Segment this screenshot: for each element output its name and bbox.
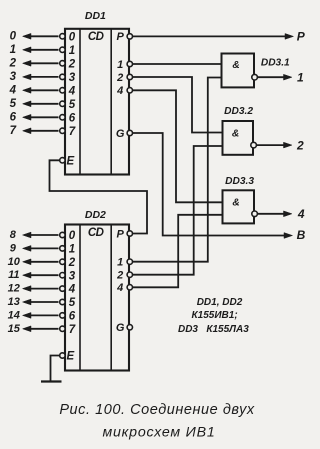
node B (external output label) (297, 228, 306, 242)
svg-text:2: 2 (9, 57, 17, 69)
DD1 input pin 2 (external line 2) (9, 57, 76, 70)
wire DD2.P to DD1.E (cascade enable) (50, 160, 148, 233)
DD2 output pin 4 (116, 282, 132, 294)
svg-text:&: & (232, 60, 239, 71)
DD1 input pin 4 (external line 4) (9, 84, 76, 97)
svg-text:0: 0 (69, 230, 76, 242)
caption line 2 (102, 425, 215, 441)
wire DD1.G to external output B (132, 133, 292, 238)
node 1 (external output label) (297, 70, 304, 84)
svg-text:P: P (117, 228, 125, 240)
svg-text:2: 2 (116, 72, 123, 84)
svg-text:E: E (66, 351, 74, 363)
DD2 input pin 0 (external line 8) (10, 229, 76, 242)
svg-text:5: 5 (10, 98, 17, 110)
wire DD3.3 output to external 4 (257, 211, 292, 217)
svg-text:7: 7 (69, 324, 76, 336)
label DD2 (85, 209, 106, 221)
svg-text:1: 1 (297, 70, 304, 84)
DD2 input pin 1 (external line 9) (10, 242, 75, 255)
DD2 input pin 2 (external line 10) (8, 256, 76, 269)
wire DD3.2 output to external 2 (256, 142, 292, 148)
label CD (DD2 function) (88, 227, 104, 239)
wire DD1.P to external output P (132, 34, 293, 40)
node 4 (external output label) (297, 207, 305, 221)
wire DD1 output 1 to DD3.1 input 1 (132, 63, 221, 65)
svg-text:6: 6 (10, 111, 17, 123)
svg-text:К155ИВ1;: К155ИВ1; (192, 310, 238, 321)
caption line 1 (59, 402, 255, 418)
DD1 input pin 3 (external line 3) (10, 71, 76, 84)
svg-text:4: 4 (297, 207, 305, 221)
svg-text:P: P (297, 29, 306, 43)
svg-text:10: 10 (8, 256, 21, 268)
wire DD2 output 2 to DD3.2 input 2 (132, 146, 222, 275)
label DD3.1 (261, 58, 290, 69)
DD1 enable input pin E (60, 155, 75, 167)
IC DD2 body (65, 225, 129, 371)
NAND gate DD3.3 (223, 190, 258, 223)
node 2 (external output label) (296, 138, 304, 152)
svg-text:5: 5 (69, 297, 76, 309)
svg-text:5: 5 (69, 99, 76, 111)
svg-text:2: 2 (68, 58, 76, 70)
svg-text:DD2: DD2 (85, 209, 106, 221)
svg-text:DD3.2: DD3.2 (224, 106, 253, 117)
svg-text:DD3.3: DD3.3 (225, 176, 254, 187)
svg-text:7: 7 (10, 125, 17, 137)
label CD (DD1 function) (88, 31, 104, 43)
label DD3.2 (224, 106, 253, 117)
DD1 input pin 7 (external line 7) (10, 125, 76, 138)
part list: K155IV1 (192, 310, 238, 321)
svg-text:3: 3 (69, 72, 76, 84)
svg-text:2: 2 (116, 270, 123, 282)
svg-text:2: 2 (68, 257, 76, 269)
svg-text:2: 2 (296, 138, 304, 152)
svg-text:3: 3 (69, 270, 76, 282)
svg-text:0: 0 (69, 31, 76, 43)
DD1 output pin 2 (116, 72, 132, 84)
svg-text:&: & (232, 197, 239, 208)
DD2 input pin 5 (external line 13) (8, 296, 76, 309)
node P (external output label) (297, 29, 306, 43)
DD2 enable input pin E (60, 351, 75, 363)
DD2 input pin 7 (external line 15) (8, 323, 76, 336)
DD2 input pin 6 (external line 14) (8, 309, 76, 322)
svg-text:4: 4 (116, 85, 123, 97)
svg-text:4: 4 (116, 282, 123, 294)
NAND gate DD3.2 (223, 121, 257, 155)
label DD3.3 (225, 176, 254, 187)
svg-text:3: 3 (10, 71, 17, 83)
DD1 output pin 4 (116, 85, 132, 97)
svg-text:0: 0 (10, 30, 17, 42)
label DD1 (85, 10, 106, 22)
svg-text:11: 11 (8, 269, 19, 281)
wire DD3.1 output to external 1 (257, 74, 292, 80)
svg-text:микросхем ИВ1: микросхем ИВ1 (102, 425, 215, 441)
svg-text:7: 7 (69, 126, 76, 138)
svg-text:13: 13 (8, 296, 20, 308)
wire DD2 output 4 to DD3.3 input 2 (132, 215, 222, 287)
svg-text:4: 4 (68, 85, 76, 97)
DD2 output pin 2 (116, 270, 132, 282)
svg-text:Рис. 100. Соединение двух: Рис. 100. Соединение двух (59, 402, 255, 418)
svg-text:DD1, DD2: DD1, DD2 (197, 297, 243, 308)
wire DD2.E to ground (51, 356, 60, 381)
part list: DD3 K155LA3 (178, 324, 249, 335)
svg-text:DD3 К155ЛА3: DD3 К155ЛА3 (178, 324, 249, 335)
NAND gate DD3.1 (222, 54, 258, 88)
DD2 output pin 1 (117, 257, 132, 269)
svg-text:9: 9 (10, 242, 17, 254)
svg-text:DD1: DD1 (85, 10, 106, 22)
part list: DD1, DD2 (197, 297, 243, 308)
svg-text:1: 1 (69, 45, 75, 57)
svg-text:4: 4 (9, 84, 17, 96)
svg-text:1: 1 (117, 257, 123, 269)
svg-text:B: B (297, 228, 306, 242)
svg-text:6: 6 (69, 311, 76, 323)
IC DD1 body (65, 29, 129, 175)
svg-text:8: 8 (10, 229, 17, 241)
wire DD1 output 2 to DD3.2 input 1 (132, 77, 222, 133)
DD1 output pin 1 (117, 59, 132, 71)
DD2 output pin P (117, 228, 133, 240)
svg-text:DD3.1: DD3.1 (261, 58, 290, 69)
wire DD2 output 1 to DD3.1 input 2 (132, 78, 221, 262)
svg-text:CD: CD (88, 31, 104, 43)
svg-text:4: 4 (68, 284, 76, 296)
svg-text:1: 1 (10, 44, 16, 56)
wire DD1 output 4 to DD3.3 input 1 (132, 90, 222, 202)
svg-text:G: G (116, 128, 125, 140)
DD2 input pin 4 (external line 12) (8, 283, 76, 296)
svg-text:G: G (116, 322, 125, 334)
DD1 input pin 1 (external line 1) (10, 44, 76, 57)
svg-text:12: 12 (8, 283, 20, 295)
DD1 output pin P (117, 31, 133, 43)
ground (41, 380, 62, 382)
DD1 input pin 6 (external line 6) (10, 111, 76, 124)
svg-text:1: 1 (69, 244, 75, 256)
svg-text:14: 14 (8, 309, 20, 321)
svg-text:15: 15 (8, 323, 21, 335)
DD1 input pin 5 (external line 5) (10, 98, 76, 111)
svg-text:P: P (117, 31, 125, 43)
svg-text:CD: CD (88, 227, 104, 239)
DD1 output pin G (116, 128, 133, 140)
DD2 input pin 3 (external line 11) (8, 269, 76, 282)
svg-text:1: 1 (117, 59, 123, 71)
svg-text:6: 6 (69, 112, 76, 124)
DD2 output pin G (116, 322, 133, 334)
DD1 input pin 0 (external line 0) (10, 30, 76, 43)
svg-text:&: & (232, 129, 239, 140)
svg-text:E: E (66, 155, 74, 167)
